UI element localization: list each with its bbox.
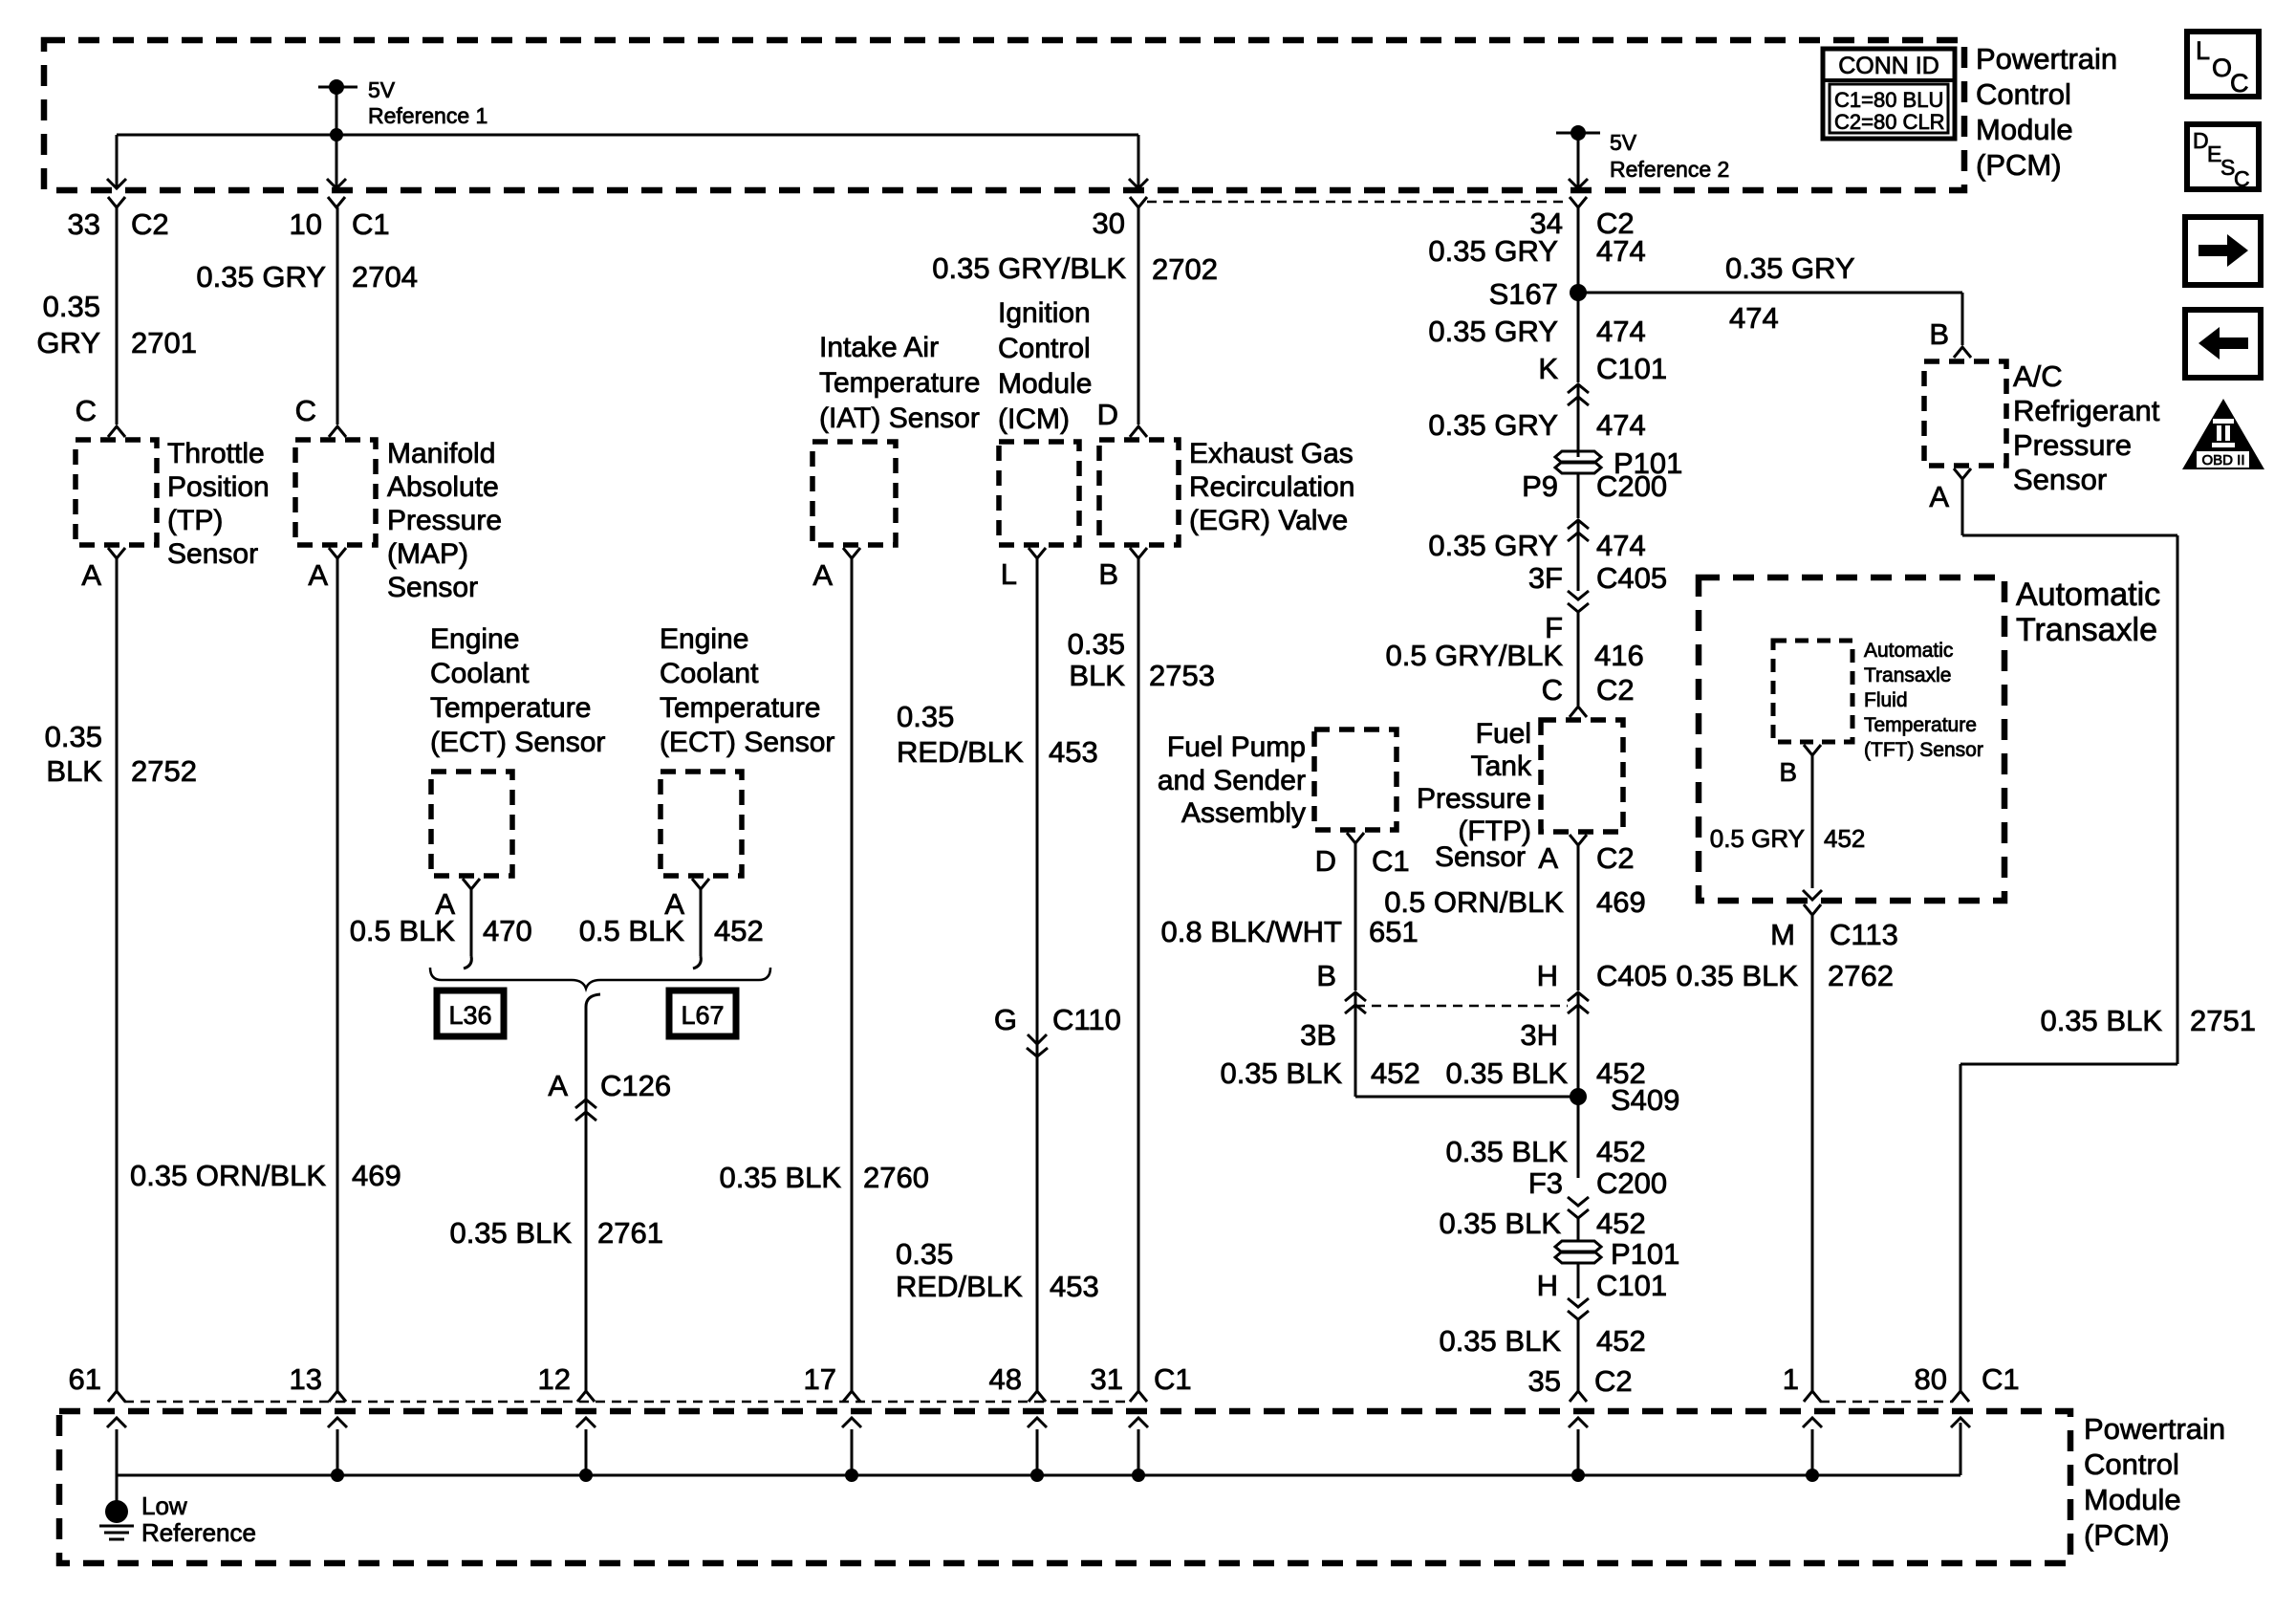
svg-text:F3: F3 [1528,1166,1563,1200]
pin C of FTP sensor [1570,707,1587,717]
wire 453 RED/BLK (ICM L to pin 48) [1036,558,1039,1391]
label 0.5 GRY 452 [1710,824,1866,853]
svg-text:48: 48 [989,1362,1022,1396]
label 0.5 GRY/BLK 416 [1385,639,1643,672]
wire 452 BLK (C101 to pin 35) [1577,1319,1580,1391]
svg-text:0.35 GRY: 0.35 GRY [1428,529,1558,562]
Automatic Transaxle Fluid Temperature (TFT) Sensor box [1773,641,1852,742]
label 3H [1520,1018,1558,1052]
svg-text:0.35 GRY: 0.35 GRY [1428,315,1558,348]
L36 engine tag box [437,991,504,1036]
svg-text:Temperature: Temperature [660,692,820,724]
svg-text:C: C [76,394,97,427]
L67 engine tag box [669,991,736,1036]
svg-text:0.5 GRY: 0.5 GRY [1710,824,1805,853]
svg-text:0.35 BLK: 0.35 BLK [1676,959,1798,992]
svg-text:C1: C1 [1154,1362,1192,1396]
svg-text:0.35 BLK: 0.35 BLK [449,1216,572,1250]
svg-text:C2: C2 [1594,1364,1633,1398]
svg-text:469: 469 [352,1159,401,1192]
svg-text:0.5 GRY/BLK: 0.5 GRY/BLK [1385,639,1563,672]
svg-text:474: 474 [1596,234,1646,268]
svg-text:3B: 3B [1300,1018,1336,1052]
wire 452 BLK (S409 to C200 F3) [1577,1097,1580,1178]
svg-text:5V: 5V [368,77,396,102]
wire 2760 BLK (IAT A to pin 17) [851,558,854,1391]
pin M C113 [1770,904,1898,951]
svg-text:RED/BLK: RED/BLK [896,1270,1023,1303]
connector 3F C405 [1528,561,1667,612]
svg-text:L67: L67 [681,1001,724,1030]
forward arrow legend box [2185,217,2261,285]
svg-text:80: 80 [1915,1362,1947,1396]
svg-text:A: A [1538,841,1558,875]
label 0.35 RED/BLK 453 (upper) [897,700,1098,769]
connector G C110 on ICM wire [994,1003,1121,1056]
label 0.35 BLK 2762 [1676,959,1894,992]
label 0.35 BLK 2752 [45,720,197,788]
arrow into pin 35 [1569,1418,1588,1475]
svg-text:Transaxle: Transaxle [1864,664,1951,686]
svg-text:L: L [1001,557,1017,591]
svg-text:Pressure: Pressure [2013,428,2132,462]
wire 2761 BLK (ECT splice to pin 12) [585,1007,588,1391]
svg-text:10: 10 [290,207,322,241]
svg-text:453: 453 [1049,735,1098,769]
wire 474 GRY (P101 to C200) [1577,472,1580,518]
svg-text:Control: Control [998,333,1091,364]
label 0.35 ORN/BLK 469 [130,1159,401,1192]
label 0.35 GRY 474 (to P101) [1428,408,1645,442]
svg-text:A: A [81,558,101,592]
svg-text:Refrigerant: Refrigerant [2013,394,2160,427]
svg-text:Powertrain: Powertrain [1976,42,2117,76]
svg-text:D: D [1097,398,1118,431]
DESC legend box [2187,124,2259,191]
arrow into pin 17 [842,1418,861,1475]
svg-text:469: 469 [1596,885,1646,919]
svg-text:0.35 GRY: 0.35 GRY [1428,234,1558,268]
svg-text:Low: Low [141,1491,187,1520]
label Engine Coolant Temperature (ECT) Sensor (L36) [430,623,605,758]
svg-text:C2: C2 [1596,841,1635,875]
svg-text:Engine: Engine [660,623,748,655]
connector line C2 (thin dashed, pins 30-34) [1147,201,1570,204]
svg-text:H: H [1537,959,1558,992]
svg-text:M: M [1770,918,1795,951]
svg-text:Reference 1: Reference 1 [368,103,487,128]
label 0.35 BLK 2753 [1068,627,1215,692]
svg-text:0.35 ORN/BLK: 0.35 ORN/BLK [130,1159,326,1192]
wire 470 BLK from ECT L36 [464,889,471,969]
wire drop to pin 10 [327,135,346,188]
Ignition Control Module box [999,442,1079,545]
svg-text:0.35 BLK: 0.35 BLK [719,1161,841,1194]
label 0.35 GRY 474 (pin34) [1428,234,1645,268]
svg-text:C405: C405 [1596,561,1667,595]
ground symbol Low Reference [99,1475,256,1547]
svg-text:(ECT) Sensor: (ECT) Sensor [430,727,605,758]
svg-text:0.35 BLK: 0.35 BLK [1439,1324,1561,1358]
svg-text:452: 452 [1824,824,1865,853]
connector A C126 on ECT wire [548,1069,671,1121]
svg-text:L: L [2196,36,2210,65]
svg-text:(EGR) Valve: (EGR) Valve [1189,505,1348,536]
grommet P101 (upper) [1555,446,1682,480]
pin 80 C1 on PCM [1915,1362,2020,1402]
svg-text:0.35 GRY: 0.35 GRY [196,260,326,294]
svg-text:C113: C113 [1830,918,1898,951]
pin A of MAP sensor [308,548,346,592]
svg-text:0.35: 0.35 [896,1237,953,1271]
svg-text:Control: Control [2084,1448,2179,1481]
connector C200 chevrons [1568,520,1589,541]
pin D of EGR valve [1097,398,1147,437]
svg-text:Sensor: Sensor [2013,463,2107,496]
svg-text:L36: L36 [448,1001,491,1030]
label Automatic Transaxle Fluid Temperature (TFT) Sensor [1864,640,1983,761]
svg-text:0.35: 0.35 [1068,627,1125,661]
svg-text:12: 12 [538,1362,571,1396]
label 0.35 GRY 2704 [196,260,418,294]
svg-text:Temperature: Temperature [1864,714,1977,736]
svg-text:2760: 2760 [863,1161,929,1194]
svg-text:Intake Air: Intake Air [819,332,939,363]
label Powertrain Control Module (PCM) bottom [2084,1412,2225,1552]
label 0.35 BLK 452 (3H) [1445,1056,1645,1090]
svg-text:A: A [812,558,833,592]
low reference bus wire [117,1469,1960,1482]
label Throttle Position (TP) Sensor [167,438,270,570]
connector F3 C200 [1528,1166,1667,1218]
arrow into pin 1 [1803,1418,1822,1475]
svg-text:C: C [2230,69,2249,98]
svg-text:2701: 2701 [131,326,197,359]
label 0.35 BLK 452 (to P101) [1439,1207,1645,1240]
svg-text:5V: 5V [1610,130,1637,155]
svg-text:0.35: 0.35 [897,700,954,733]
svg-text:0.35 BLK: 0.35 BLK [1439,1207,1561,1240]
wire 2753 BLK (EGR B to pin 31) [1137,558,1140,1391]
pin 35 C2 on PCM [1528,1364,1633,1402]
connector B C405 (fuel pump side) [1316,959,1366,1013]
svg-text:Fuel: Fuel [1476,718,1531,750]
svg-text:35: 35 [1528,1364,1561,1398]
label 0.35 GRY/BLK 2702 [932,251,1218,286]
svg-text:C2=80 CLR: C2=80 CLR [1834,110,1945,134]
svg-text:Absolute: Absolute [387,471,499,503]
wire drop to pin 30 [1129,135,1148,188]
label Ignition Control Module (ICM) [998,297,1092,435]
wire 2702 GRY/BLK (pin 30 to EGR D) [1137,207,1140,425]
connector C101 chevrons (lower) [1568,1298,1589,1319]
svg-text:Sensor: Sensor [1435,841,1526,873]
svg-text:452: 452 [1596,1207,1646,1240]
pin B of A/C pressure sensor [1929,317,1971,358]
pin 48 on PCM [989,1362,1046,1402]
pin 34 C2 on PCM [1530,197,1635,240]
svg-text:Exhaust Gas: Exhaust Gas [1189,438,1354,469]
PCM module box (bottom), Powertrain Control Module [59,1411,2070,1563]
svg-text:C101: C101 [1596,1269,1667,1302]
pin L of ICM [1001,548,1046,591]
svg-text:Tank: Tank [1471,751,1532,782]
svg-text:0.35 BLK: 0.35 BLK [2040,1004,2162,1037]
svg-text:2753: 2753 [1149,659,1215,692]
svg-text:0.8 BLK/WHT: 0.8 BLK/WHT [1161,915,1343,948]
label 0.35 GRY 474 (branch) [1725,251,1855,335]
svg-text:Sensor: Sensor [387,572,478,603]
svg-text:474: 474 [1596,529,1646,562]
OBD II symbol [2182,399,2264,469]
pin 61 on PCM [69,1362,125,1402]
label Fuel Pump and Sender Assembly [1158,731,1306,829]
svg-text:1: 1 [1783,1362,1799,1396]
label 0.5 BLK 452 (ECT L67) [579,914,764,947]
svg-text:2702: 2702 [1152,252,1218,286]
label 0.35 GRY 474 (to C101) [1428,315,1645,348]
svg-text:S167: S167 [1489,277,1558,311]
wire 474 GRY (C101 to P101) [1577,384,1580,457]
svg-text:Pressure: Pressure [1417,783,1531,815]
svg-text:30: 30 [1093,207,1125,240]
back arrow legend box [2185,310,2261,378]
svg-text:C2: C2 [131,207,169,241]
label 3B [1300,1018,1336,1052]
svg-text:Temperature: Temperature [819,367,980,399]
svg-text:B: B [1929,317,1949,351]
svg-text:474: 474 [1729,301,1779,335]
svg-text:(ICM): (ICM) [998,403,1070,435]
arrow into pin 12 [576,1418,596,1475]
label Exhaust Gas Recirculation (EGR) Valve [1189,438,1354,536]
svg-text:0.35: 0.35 [43,290,100,323]
Fuel Tank Pressure (FTP) Sensor box [1541,720,1623,832]
pin C of TP sensor [76,394,125,437]
label 0.35 BLK 2761 [449,1216,663,1250]
svg-text:(PCM): (PCM) [2084,1518,2170,1552]
svg-text:3F: 3F [1528,561,1563,595]
svg-text:0.35 GRY: 0.35 GRY [1428,408,1558,442]
svg-text:0.35 BLK: 0.35 BLK [1445,1056,1568,1090]
svg-text:(ECT) Sensor: (ECT) Sensor [660,727,834,758]
svg-text:0.5 BLK: 0.5 BLK [350,914,456,947]
svg-text:Pressure: Pressure [387,505,502,536]
svg-text:Module: Module [2084,1483,2181,1516]
wire 452 GRY (TFT B to C113 M) [1803,755,1822,900]
wire 474 GRY (S167 branch to A/C sensor B) [1578,293,1962,345]
svg-text:33: 33 [68,207,100,241]
svg-text:3H: 3H [1520,1018,1558,1052]
svg-text:0.35 BLK: 0.35 BLK [1445,1135,1568,1168]
svg-text:P101: P101 [1611,1237,1679,1271]
arrow into pin 48 [1028,1418,1047,1475]
label 0.35 GRY 2701 [36,290,197,359]
pin A of ECT sensor L36 [435,879,480,921]
svg-text:(TFT) Sensor: (TFT) Sensor [1864,739,1983,761]
svg-text:Fuel Pump: Fuel Pump [1167,731,1306,763]
ECT sensor box (L36 engine) [431,772,512,876]
connector P9 C200 [1522,469,1667,503]
svg-text:K: K [1538,352,1558,385]
5V Reference 2 supply stub [1556,125,1729,188]
A/C Refrigerant Pressure Sensor box [1924,361,2006,466]
pin B of EGR valve [1098,548,1147,591]
svg-text:C200: C200 [1596,469,1667,503]
svg-text:Engine: Engine [430,623,519,655]
label pin F [1545,611,1563,644]
svg-text:G: G [994,1003,1017,1036]
svg-text:D: D [1315,844,1336,878]
svg-text:A/C: A/C [2013,359,2063,393]
LOC legend box [2187,32,2259,98]
svg-text:452: 452 [1371,1056,1420,1090]
svg-text:452: 452 [714,914,764,947]
Fuel Pump and Sender Assembly box [1314,729,1397,830]
svg-text:Recirculation: Recirculation [1189,471,1354,503]
wire 5V Reference 1 bus [117,128,1138,142]
svg-text:B: B [1098,557,1118,591]
svg-text:H: H [1537,1269,1558,1302]
svg-text:2704: 2704 [352,260,418,294]
svg-text:61: 61 [69,1362,101,1396]
svg-text:CONN ID: CONN ID [1838,53,1939,79]
wire 452 BLK (C200 to P101) [1577,1218,1580,1241]
pin 13 on PCM [290,1362,346,1402]
grommet P101 (lower) [1555,1237,1679,1271]
svg-text:and Sender: and Sender [1158,765,1306,796]
svg-text:B: B [1316,959,1336,992]
wire 474 GRY (pin 34 to S167) [1577,207,1580,293]
svg-text:Automatic: Automatic [1864,640,1953,662]
svg-text:Transaxle: Transaxle [2016,612,2157,648]
pin 33 C2 on PCM [68,197,169,241]
PCM module box (top), Powertrain Control Module [44,40,1964,190]
svg-text:(TP): (TP) [167,505,223,536]
Manifold Absolute Pressure (MAP) Sensor box [295,440,376,545]
pin A of ECT sensor L67 [664,879,709,921]
svg-text:P9: P9 [1522,469,1558,503]
svg-text:O: O [2212,54,2232,82]
svg-text:C: C [1542,673,1563,707]
svg-text:A: A [308,558,328,592]
svg-text:Automatic: Automatic [2016,577,2160,613]
label Intake Air Temperature (IAT) Sensor [819,332,980,434]
pin A C2 of FTP sensor [1538,835,1634,875]
svg-text:0.35 GRY/BLK: 0.35 GRY/BLK [932,251,1126,285]
svg-text:Fluid: Fluid [1864,689,1908,711]
Automatic Transaxle box [1699,577,2004,901]
pin C of MAP sensor [295,394,346,437]
svg-text:OBD II: OBD II [2201,452,2244,468]
svg-text:Sensor: Sensor [167,538,258,570]
label 0.5 BLK 470 [350,914,532,947]
svg-text:Manifold: Manifold [387,438,495,469]
splice S409 [1570,1083,1679,1117]
connector H C101 [1537,1269,1668,1302]
pin B of TFT sensor [1779,745,1821,787]
svg-text:Module: Module [998,368,1092,400]
5V Reference 1 supply stub [318,77,487,135]
pin 10 C1 on PCM [290,197,390,241]
label Fuel Tank Pressure (FTP) Sensor [1417,718,1532,873]
svg-text:474: 474 [1596,408,1646,442]
svg-text:Coolant: Coolant [430,658,530,689]
svg-text:2762: 2762 [1828,959,1894,992]
splice S167 [1489,277,1587,311]
svg-text:474: 474 [1596,315,1646,348]
label 0.8 BLK/WHT 651 [1161,915,1419,948]
wire drop to pin 33 [107,135,126,188]
svg-text:Assembly: Assembly [1181,797,1306,829]
label 0.35 GRY 474 (to C405) [1428,529,1645,562]
pin A of A/C pressure sensor [1929,468,1971,513]
svg-text:416: 416 [1594,639,1644,672]
svg-text:Reference: Reference [141,1518,256,1547]
label Manifold Absolute Pressure (MAP) Sensor [387,438,502,603]
wire 474 GRY (C200 to C405) [1577,520,1580,591]
connector H C405 [1537,959,1668,1013]
label Automatic Transaxle [2016,577,2160,648]
wire 2752 BLK (TP A to pin 61) [116,558,119,1391]
svg-text:2752: 2752 [131,754,197,788]
CONN ID legend box [1823,49,1955,139]
svg-text:Throttle: Throttle [167,438,265,469]
label Powertrain Control Module (PCM) top [1976,42,2117,182]
label A/C Refrigerant Pressure Sensor [2013,359,2160,496]
svg-text:C1: C1 [1982,1362,2020,1396]
svg-text:C: C [2234,166,2250,191]
svg-text:Reference 2: Reference 2 [1610,157,1729,182]
label 0.5 ORN/BLK 469 [1384,885,1646,919]
svg-text:C: C [295,394,316,427]
label C C2 (FTP pin C) [1542,673,1635,707]
label 0.35 RED/BLK 453 (lower) [896,1237,1099,1303]
svg-text:452: 452 [1596,1135,1646,1168]
label 0.35 BLK 2751 [2040,1004,2256,1037]
svg-text:0.35 GRY: 0.35 GRY [1725,251,1855,285]
svg-text:C2: C2 [1596,673,1635,707]
pin 17 on PCM [804,1362,860,1402]
pin A of TP sensor [81,548,125,592]
svg-text:C126: C126 [600,1069,671,1102]
pin D C1 of fuel pump [1315,833,1410,878]
svg-text:2761: 2761 [597,1216,663,1250]
svg-text:C1: C1 [352,207,390,241]
svg-text:651: 651 [1369,915,1419,948]
svg-text:Control: Control [1976,77,2071,111]
svg-text:S409: S409 [1611,1083,1679,1117]
svg-text:Coolant: Coolant [660,658,759,689]
IAT sensor box [812,442,896,545]
svg-text:GRY: GRY [36,326,100,359]
svg-text:Module: Module [1976,113,2073,146]
wire 469 ORN/BLK (MAP A to pin 13) [336,558,339,1391]
svg-text:C1: C1 [1372,844,1410,878]
ECT sensor box (L67 engine) [661,772,742,876]
svg-text:C405: C405 [1596,959,1667,992]
label Engine Coolant Temperature (ECT) Sensor (L67) [660,623,834,758]
label 0.35 BLK 452 (below S409) [1445,1135,1645,1168]
connector line C405 (thin dashed) [1355,1005,1568,1008]
wire 452 BLK (C405 3B to S409) [1355,992,1578,1097]
wire 651 BLK/WHT (fuel pump D to C405 B) [1354,843,1357,991]
svg-text:0.5 ORN/BLK: 0.5 ORN/BLK [1384,885,1564,919]
svg-text:13: 13 [290,1362,322,1396]
wire 2751 BLK (A/C A to pin 80) [1960,479,2177,1391]
svg-text:Ignition: Ignition [998,297,1091,329]
svg-text:BLK: BLK [46,754,102,788]
